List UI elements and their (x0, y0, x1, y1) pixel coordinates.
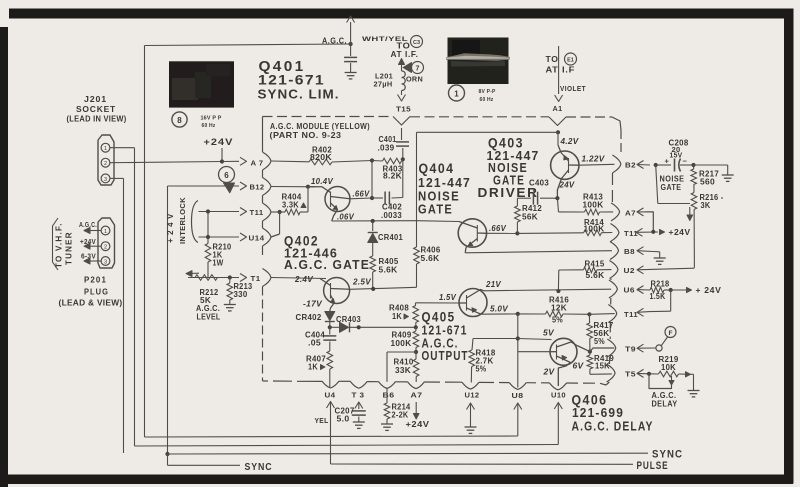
svg-text:5V: 5V (543, 329, 554, 338)
arrow at T11 lower (637, 308, 644, 316)
bracket for VHF tuner (53, 218, 59, 270)
svg-text:INTERLOCK: INTERLOCK (178, 197, 187, 244)
resistor R218 1.5K (650, 287, 664, 293)
svg-text:.06V: .06V (337, 212, 354, 221)
resistor R414 100K (584, 230, 602, 236)
R219 wiper arrow (671, 376, 673, 382)
svg-text:U8: U8 (512, 391, 524, 400)
node R213 junction (228, 275, 232, 279)
svg-text:1.22V: 1.22V (582, 155, 605, 164)
wire A7 to T11 tie (646, 212, 653, 232)
ground below A.G.C. capacitor (345, 72, 357, 74)
svg-text:ORN: ORN (406, 75, 423, 84)
svg-text:A.G.C.: A.G.C. (322, 36, 347, 46)
key circle C3 (411, 36, 423, 48)
wire WHT/YEL from top-left corner down-left vertical (145, 44, 351, 46)
wire T3 with arrow (355, 402, 363, 409)
svg-text:SOCKET: SOCKET (76, 104, 116, 114)
svg-text:A.G.C. DELAY: A.G.C. DELAY (572, 418, 654, 433)
svg-text:1.5K: 1.5K (650, 292, 666, 301)
svg-text:TO V.H.F.: TO V.H.F. (55, 223, 64, 268)
svg-text:AT I.F.: AT I.F. (391, 49, 419, 59)
svg-text:−: − (683, 157, 688, 166)
resistor R419 15K (587, 355, 593, 369)
wire Q405 base from R408 node (416, 302, 460, 304)
svg-text:.0033: .0033 (381, 211, 402, 220)
connector P201 plug body (98, 218, 115, 268)
key circle E1 (565, 53, 577, 65)
svg-text:(LEAD IN VIEW): (LEAD IN VIEW) (67, 114, 127, 124)
arrow up to I.F. on L201 branch (399, 59, 405, 65)
wire Q403 bottom to C403 node (557, 179, 561, 199)
wire to pin U14 with arrow (199, 236, 240, 238)
svg-text:15K: 15K (595, 362, 610, 371)
svg-text:21V: 21V (485, 280, 501, 289)
transistor Q404 (noise gate) (458, 219, 486, 247)
svg-text:2: 2 (104, 161, 107, 167)
wire to ground right of C208 (694, 164, 728, 166)
noise gate feedback wire (656, 165, 658, 204)
wire B8 to ground (653, 251, 660, 253)
svg-text:560: 560 (700, 178, 715, 187)
transistor Q402a (sync gate) (325, 187, 350, 212)
wire to pin T11 with arrow (199, 211, 240, 213)
node B2 ext junction (654, 163, 658, 167)
svg-text:820K: 820K (310, 153, 332, 162)
svg-text:A.G.C. GATE: A.G.C. GATE (284, 258, 370, 272)
svg-text:B2: B2 (625, 161, 636, 170)
wire Q404 base from .06V corner (417, 220, 460, 223)
svg-text:8: 8 (177, 116, 182, 125)
resistor R418 2.7K 5% (469, 350, 475, 367)
svg-text:J201: J201 (84, 94, 107, 104)
svg-text:R218: R218 (651, 279, 670, 288)
transistor Q402b (A.G.C. gate) (324, 278, 350, 304)
wire Q403 top to A1 node (557, 132, 559, 145)
wire A7 bottom to +24V (415, 402, 417, 414)
svg-text:330: 330 (234, 290, 248, 299)
module top edge dashed with teeth at T15 and A1 (263, 116, 394, 118)
svg-text:8.2K: 8.2K (383, 172, 402, 181)
arrow at T11 right (636, 228, 643, 236)
svg-text:7: 7 (416, 66, 420, 73)
node R402/R403 junction (370, 158, 374, 162)
diode CR401 (372, 221, 374, 231)
diode CR403 (330, 326, 339, 328)
svg-text:1: 1 (104, 229, 107, 235)
capacitor C403 (517, 197, 531, 199)
capacitor C404 .05 (329, 327, 331, 334)
wire U8 return to left (514, 403, 522, 410)
arrow up from A.G.C. node to frame (350, 22, 352, 44)
svg-text:5%: 5% (476, 365, 487, 374)
wire 5.0V emitter rail (481, 313, 518, 315)
svg-text:U10: U10 (551, 391, 566, 400)
ground at U12 (465, 426, 477, 428)
wire T9 jog (590, 348, 614, 352)
svg-text:DELAY: DELAY (652, 400, 678, 409)
arrow at U2 (637, 266, 644, 274)
svg-text:8V P-P: 8V P-P (479, 89, 496, 95)
svg-text:T11: T11 (624, 310, 638, 319)
P201 pin 1 (101, 226, 110, 235)
svg-text:(LEAD & VIEW): (LEAD & VIEW) (59, 298, 123, 308)
svg-text:3: 3 (104, 177, 107, 183)
svg-text:5.6K: 5.6K (379, 266, 398, 275)
node C208/R217 junction (691, 163, 695, 167)
wire 5.0V down to U8 (517, 314, 519, 388)
resistor R408 1K (415, 303, 417, 306)
svg-text:U6: U6 (624, 286, 636, 295)
scope pointer 6 circle and triangle (219, 167, 235, 183)
svg-text:1: 1 (104, 146, 107, 152)
P201 pin 2 (101, 242, 110, 251)
switch contact at T9 (656, 345, 662, 351)
wire 5V tangent stub (518, 339, 552, 340)
svg-text:T5: T5 (625, 370, 636, 379)
svg-text:(PART NO. 9-23: (PART NO. 9-23 (270, 130, 342, 140)
svg-text:T15: T15 (396, 105, 411, 114)
wire J201 pin3 down (110, 177, 124, 179)
svg-text:16V P P: 16V P P (201, 116, 222, 122)
resistor R409 100K (413, 331, 419, 348)
potentiometer R212 wiper arrow (188, 272, 199, 274)
svg-text:1.5V: 1.5V (439, 293, 456, 302)
module left edge with teeth A7 B12 T11 U14 T1 (262, 117, 264, 153)
wire R413 rail (557, 198, 558, 212)
svg-text:AT: AT (546, 65, 559, 75)
wire T11 lower to R218 node (650, 310, 671, 312)
svg-text:CR403: CR403 (336, 315, 361, 324)
resistor R416 12K 5% (546, 311, 564, 317)
node R405 bottom (371, 287, 375, 291)
inductor L201 (402, 71, 406, 91)
wire J201 pin1 down to U10 return (110, 147, 135, 149)
svg-text:-17V: -17V (303, 300, 322, 309)
resistor R404 3.3K (278, 210, 282, 214)
svg-text:60 Hz: 60 Hz (480, 97, 494, 103)
svg-text:2.4V: 2.4V (294, 275, 313, 284)
ground at R214 (381, 423, 393, 425)
node T5/R219 (647, 372, 651, 376)
transistor Q403 (noise gate driver) (551, 151, 579, 179)
svg-text:PULSE: PULSE (637, 460, 669, 472)
wire R418 branch (473, 338, 518, 340)
module right edge with teeth B2 A7 T11 B8 U2 U6 T11 T9 T5 (620, 130, 622, 153)
svg-text:U14: U14 (249, 234, 265, 243)
wire Q402b collector 2.5V rail (350, 287, 417, 289)
svg-text:.66V: .66V (353, 190, 370, 199)
svg-text:U4: U4 (325, 391, 336, 400)
wire Q402a emitter to .06V rail (332, 210, 338, 222)
svg-text:100K: 100K (583, 201, 604, 210)
ground at B8 (654, 257, 666, 259)
resistor R412 56K (516, 198, 518, 206)
capacitor C402 .0033 (372, 197, 383, 199)
wire .06V emitter rail (332, 220, 417, 222)
svg-text:LEVEL: LEVEL (197, 313, 221, 322)
resistor R402 820K (309, 159, 332, 165)
svg-text:60 Hz: 60 Hz (202, 123, 216, 129)
svg-text:CR401: CR401 (378, 233, 403, 242)
wire U12 to ground (467, 403, 475, 410)
node CR402/C404 junction (328, 325, 332, 329)
svg-text:5%: 5% (552, 316, 563, 325)
svg-text:5.0V: 5.0V (490, 305, 508, 314)
resistor R417 56K 5% (588, 314, 590, 323)
wire Q402a collector to C402 node (350, 197, 372, 200)
svg-text:A 7: A 7 (251, 159, 264, 168)
interlock bracket (192, 201, 199, 243)
svg-text:100K: 100K (584, 225, 605, 234)
J201 pin 3 (101, 174, 110, 183)
ground at C208 net (722, 174, 734, 176)
svg-text:15V: 15V (670, 152, 683, 159)
ground at R219 (688, 390, 700, 392)
svg-text:3: 3 (104, 260, 107, 266)
svg-text:.66V: .66V (489, 224, 506, 233)
svg-text:5.6K: 5.6K (421, 254, 440, 263)
wire B12 base rail (271, 186, 315, 188)
wire Q404 emitter to B8 rail (464, 248, 467, 253)
wire to pin A7 with arrow (222, 160, 239, 162)
node R409/R410 (414, 350, 418, 354)
wire 2.4V base rail to Q402b (271, 278, 326, 279)
node T11/U14 tie (206, 209, 210, 213)
svg-text:100K: 100K (391, 339, 412, 348)
svg-text:2-2K: 2-2K (392, 411, 409, 420)
wire R218 node down to T11 (670, 290, 672, 311)
J201 pin 1 (101, 143, 110, 152)
svg-text:U2: U2 (624, 266, 636, 275)
wire U10 return to left (554, 403, 562, 410)
wire R419 to T5 (590, 373, 612, 375)
svg-text:T9: T9 (625, 345, 636, 354)
svg-text:2V: 2V (542, 368, 554, 377)
switch key circle F (665, 327, 676, 338)
svg-text:B8: B8 (624, 247, 635, 256)
resistor R413 100K (585, 209, 600, 215)
svg-text:P201: P201 (84, 275, 107, 285)
svg-text:+24V: +24V (669, 228, 691, 237)
R219 return loop (649, 374, 672, 389)
svg-text:2: 2 (104, 245, 107, 251)
svg-text:10K: 10K (661, 363, 676, 372)
node SYNC junction (165, 452, 169, 456)
svg-text:TO: TO (546, 54, 559, 64)
potentiometer R219 10K (649, 373, 659, 375)
svg-text:+24V: +24V (406, 420, 430, 429)
resistor R214 2.2K (386, 388, 388, 404)
node C401/R403 junction (401, 157, 405, 161)
arrow at T9 (637, 344, 644, 352)
potentiometer R212 5K A.G.C. LEVEL (195, 275, 218, 281)
wire Q406 base (518, 351, 550, 353)
arrow at U6 (637, 286, 644, 294)
node R417/R419/T9 (588, 350, 592, 354)
arrow at T5 (637, 369, 644, 377)
scope key circle 8 (172, 112, 187, 127)
transistor Q405 (A.G.C. output) (459, 289, 487, 317)
svg-text:A7: A7 (625, 209, 636, 218)
arrow at B8 (637, 247, 644, 255)
svg-text:B12: B12 (250, 183, 265, 192)
svg-text:3K: 3K (701, 201, 711, 210)
svg-text:.039: .039 (378, 144, 395, 153)
svg-text:C3: C3 (413, 40, 420, 46)
svg-text:E1: E1 (567, 58, 574, 64)
wire Q403 base to B2 (579, 163, 615, 166)
svg-text:5%: 5% (594, 337, 605, 346)
wire A7 rail into module (271, 160, 309, 163)
wire to pin T1 with arrow (188, 277, 239, 279)
wire P201 pin3 arrow (86, 260, 101, 262)
resistor R405 5.6K (370, 256, 376, 272)
wire R219 to ground (693, 374, 695, 390)
node A7 feed junction (220, 159, 224, 163)
wire T11 to U14 tie (279, 212, 281, 234)
wire Q406 emitter to U10 (558, 363, 570, 387)
svg-text:A7: A7 (411, 391, 423, 400)
J201 pin 2 (101, 158, 110, 167)
transistor Q406 (A.G.C. delay) (550, 338, 577, 365)
capacitor C208 electrolytic (656, 164, 671, 166)
svg-text:C403: C403 (529, 179, 549, 188)
svg-text:F: F (669, 330, 673, 337)
diode CR402 (325, 321, 335, 323)
wire Q402b emitter down (330, 303, 335, 312)
wire U4 (YEL) down to PULSE (327, 402, 335, 409)
svg-text:6: 6 (224, 171, 229, 180)
svg-text:4.2V: 4.2V (559, 137, 578, 146)
arrow down to T15 (401, 91, 403, 96)
ground below R213 (224, 304, 236, 306)
svg-text:1K: 1K (392, 312, 402, 321)
scope key circle 1 (449, 85, 465, 101)
wire P201 pin2 arrow (86, 245, 101, 247)
connector J201 socket body (98, 135, 114, 185)
wire to I.F. (violet) (558, 46, 560, 94)
capacitor C207 5.0 (352, 410, 366, 412)
node U14 junction (206, 235, 210, 239)
capacitor C401 .039 (401, 128, 403, 140)
svg-text:33K: 33K (395, 366, 411, 375)
scope pointer triangle with circle 7 (403, 63, 412, 73)
wire 21V collector rail to U6 (484, 289, 611, 291)
node base junction (306, 185, 310, 189)
svg-text:A1: A1 (553, 104, 563, 113)
wire SYNC stub (167, 454, 169, 465)
svg-text:56K: 56K (522, 213, 538, 222)
svg-text:12K: 12K (551, 304, 567, 313)
wire +24V stub (221, 148, 223, 162)
variable resistor R216 3K (691, 193, 697, 210)
svg-text:GATE: GATE (661, 183, 682, 192)
svg-text:27µH: 27µH (374, 80, 393, 89)
svg-text:VIOLET: VIOLET (560, 84, 586, 93)
resistor R407 1K (327, 351, 333, 369)
wire Q404 collector rail (487, 232, 518, 234)
svg-text:OUTPUT: OUTPUT (422, 348, 469, 363)
svg-text:+24V: +24V (204, 137, 234, 148)
node CR401 top (371, 219, 375, 223)
node R408/CR403 (414, 325, 418, 329)
photo 1 waveform (16V P-P) (169, 61, 234, 107)
svg-text:+ 24V: + 24V (696, 286, 722, 295)
capacitor at A.G.C. node (350, 44, 352, 56)
svg-text:1W: 1W (213, 259, 224, 268)
resistor R410 33K (415, 352, 417, 359)
svg-text:10.4V: 10.4V (311, 177, 333, 186)
photo 2 waveform (8V P-P) (448, 38, 509, 85)
P201 pin 3 (101, 257, 110, 266)
resistor R403 8.2K (372, 160, 383, 163)
svg-text:SYNC. LIM.: SYNC. LIM. (258, 87, 340, 102)
node A.G.C. junction (349, 42, 353, 46)
wire Q406 collector to R417 node (577, 346, 590, 352)
svg-text:YEL: YEL (315, 416, 329, 425)
svg-text:I.F: I.F (562, 65, 575, 75)
wire A1 rail down to Q404 base (556, 130, 560, 134)
resistor R406 5.6K (416, 221, 418, 247)
resistor R217 560 (693, 165, 695, 169)
svg-text:T11: T11 (624, 229, 638, 238)
arrow at A7 right (637, 208, 644, 216)
wire SYNC long (168, 452, 649, 455)
svg-text:.05: .05 (308, 339, 321, 348)
svg-text:Q404: Q404 (419, 161, 455, 176)
svg-text:5.0: 5.0 (337, 415, 350, 424)
wire R403 parallel branch (371, 161, 373, 199)
resistor R210 (207, 237, 209, 244)
arrow at B2 (637, 161, 644, 169)
wire J201 pin2 to A7 (110, 162, 222, 163)
svg-text:SYNC: SYNC (652, 449, 683, 461)
svg-text:2.5V: 2.5V (352, 278, 371, 287)
svg-text:U12: U12 (465, 391, 480, 400)
svg-text:B6: B6 (383, 391, 395, 400)
wire P201 pin1 arrow (86, 230, 101, 232)
resistor R213 330 (229, 278, 231, 284)
ground at C207 (353, 421, 365, 423)
svg-text:121-671: 121-671 (258, 72, 325, 88)
wire T11 to +24V (660, 229, 665, 234)
svg-text:R415: R415 (585, 260, 605, 269)
svg-text:PLUG: PLUG (84, 287, 109, 297)
module bottom edge dashed with teeth U4 T3 B6 A7 U12 U8 U10 (263, 380, 269, 382)
svg-text:1: 1 (454, 89, 459, 98)
svg-text:TUNER: TUNER (65, 232, 74, 265)
svg-text:T 3: T 3 (352, 391, 365, 400)
svg-text:1K: 1K (308, 363, 318, 372)
svg-text:SYNC: SYNC (245, 462, 273, 473)
svg-text:3.3K: 3.3K (282, 201, 299, 210)
svg-text:CR402: CR402 (296, 313, 322, 322)
svg-text:T11: T11 (250, 208, 264, 217)
wire to B6 (387, 351, 416, 353)
wire T11 tooth to R404 (271, 211, 280, 213)
resistor R415 5.6K (597, 269, 612, 271)
svg-text:5.6K: 5.6K (586, 271, 605, 280)
svg-text:6V: 6V (573, 362, 584, 371)
svg-text:GATE: GATE (418, 202, 453, 217)
wire to pin B12 with arrow (168, 185, 240, 187)
